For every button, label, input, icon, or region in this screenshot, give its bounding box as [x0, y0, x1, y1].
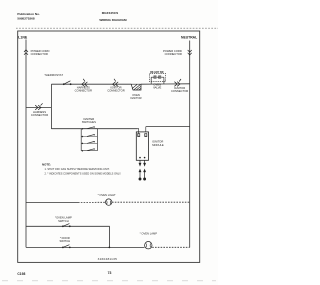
svg-text:IGNITOR: IGNITOR [130, 96, 141, 100]
oven lamp switch [55, 216, 72, 228]
header publication number text [17, 12, 40, 20]
igniter switches ladder [81, 117, 97, 151]
wire: thermostat run [51, 83, 131, 85]
module spark leads with connectors [139, 160, 146, 180]
svg-text:5995271868: 5995271868 [17, 16, 34, 20]
module pin top-right [145, 127, 147, 137]
svg-text:CONNECTOR: CONNECTOR [75, 89, 92, 93]
wire: ignitor to valve [141, 83, 166, 85]
faint next-page tear line [2, 280, 216, 282]
svg-text:* OVEN LIGHT: * OVEN LIGHT [98, 193, 116, 197]
oven light lamp [98, 193, 116, 205]
note text block [42, 163, 121, 176]
wire: door switch run to lamp [26, 246, 144, 248]
svg-text:1. SHUT OFF GAS SUPPLY BEFORE: 1. SHUT OFF GAS SUPPLY BEFORE SERVICING … [45, 167, 110, 171]
svg-text:L1NE: L1NE [18, 35, 28, 39]
svg-text:CONNECTOR: CONNECTOR [31, 113, 48, 117]
oven lamp [140, 231, 158, 249]
wire: harness branch from LINE rail [26, 107, 51, 109]
svg-text:NOTE:: NOTE: [42, 163, 51, 167]
thermostat switch [44, 73, 71, 85]
oven ignitor (glow bar) [130, 84, 141, 100]
junction node [109, 247, 111, 249]
svg-text:* OVEN LAMP: * OVEN LAMP [140, 231, 158, 235]
power cord connector (line side) [24, 50, 28, 55]
wire: oven lamp switch branch [26, 226, 109, 247]
oven gas valve (dashed enclosure with coils) [150, 71, 166, 90]
svg-text:CONNECTOR: CONNECTOR [165, 52, 182, 56]
wire: igniter switch run [51, 128, 137, 130]
svg-text:C198: C198 [17, 272, 25, 276]
harness connector on branch [35, 103, 42, 109]
wire: riser joining thermostat run and igniter run [50, 84, 52, 129]
svg-text:73: 73 [108, 271, 112, 275]
svg-text:CONNECTOR: CONNECTOR [31, 52, 48, 56]
power cord connector (neutral side) [188, 50, 192, 55]
svg-text:BK GRY BR: BK GRY BR [150, 71, 164, 74]
wire: module to neutral rail [146, 126, 190, 128]
wire: valve to neutral rail [166, 83, 190, 85]
svg-text:CONNECTOR: CONNECTOR [171, 89, 188, 93]
diagram border frame [18, 31, 200, 262]
igniter switch 3 [81, 141, 97, 144]
module pins bottom [139, 157, 141, 159]
module pin top-left [138, 129, 140, 137]
svg-text:WIRING DIAGRAM: WIRING DIAGRAM [99, 18, 127, 22]
dashed tear line [16, 27, 218, 29]
svg-text:CONNECTOR: CONNECTOR [107, 89, 124, 93]
wire: left LINE rail [25, 40, 27, 248]
igniter switch 4 [81, 148, 97, 151]
harness connector on thermostat run [82, 79, 88, 87]
svg-text:SWITCHES: SWITCHES [82, 120, 96, 124]
igniter switch 1 (on main run) [82, 126, 98, 129]
wire: oven light run [26, 201, 190, 203]
svg-text:NEUTRAL: NEUTRAL [181, 35, 197, 39]
svg-text:MODULE: MODULE [152, 143, 164, 147]
door switch [59, 236, 70, 248]
svg-text:SWITCH: SWITCH [58, 219, 69, 223]
ignitor connector on valve output [174, 79, 181, 86]
svg-text:2. * INDICATES COMPONENTS USED: 2. * INDICATES COMPONENTS USED ON SOME M… [45, 172, 122, 176]
svg-text:SWITCH: SWITCH [59, 239, 70, 243]
ignitor connector on thermostat run [113, 79, 119, 87]
igniter switches label [82, 117, 96, 124]
svg-text:THERMOSTAT: THERMOSTAT [44, 73, 63, 77]
svg-text:VALVE: VALVE [153, 86, 161, 90]
svg-text:3160481135: 3160481135 [98, 257, 118, 261]
igniter switch 2 [81, 134, 97, 137]
wire: right NEUTRAL rail [189, 41, 191, 248]
svg-text:MGF345CS: MGF345CS [102, 11, 118, 15]
ignitor module U1 [136, 127, 164, 161]
wire: lamp to neutral rail (dashed) [152, 246, 190, 248]
header model and title text [99, 11, 127, 22]
